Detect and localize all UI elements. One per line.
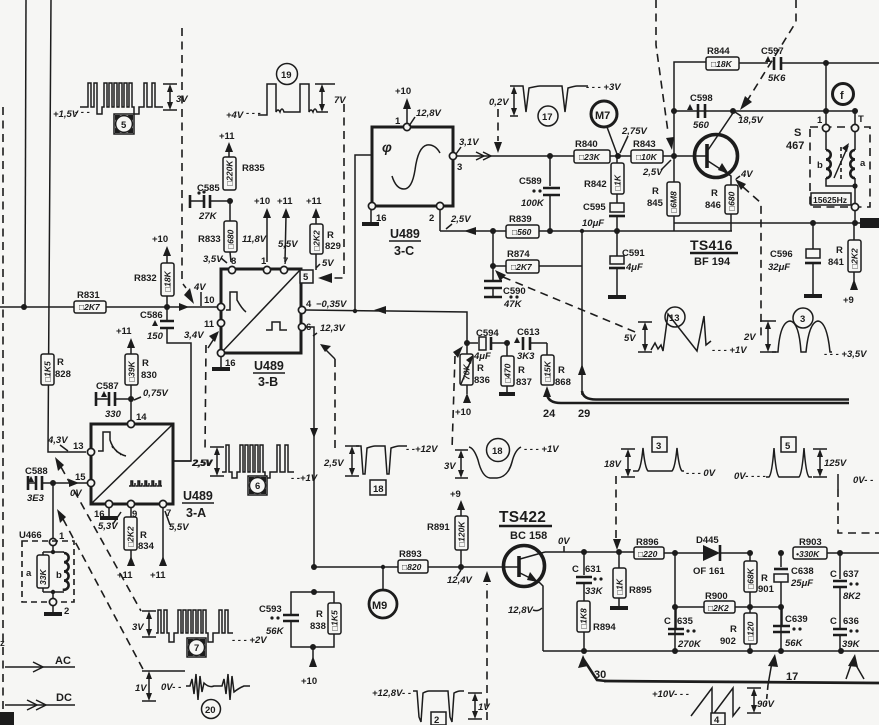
svg-text:□39K: □39K (127, 360, 137, 382)
svg-text:3-A: 3-A (186, 506, 206, 520)
svg-text:+9: +9 (843, 295, 854, 306)
pin 16 of 3-C + ground (368, 202, 375, 209)
waveform 19 pulse (226, 64, 346, 122)
svg-text:0,2V: 0,2V (489, 97, 509, 108)
svg-text:3-C: 3-C (394, 244, 414, 258)
svg-text:□2K2: □2K2 (126, 526, 136, 547)
wire vertical bus left (25, 0, 26, 307)
svg-text:R: R (836, 245, 843, 256)
wire dashed C590 node to waveform 13 (495, 270, 506, 281)
svg-text:C613: C613 (517, 327, 540, 338)
svg-text:29: 29 (578, 408, 590, 420)
svg-text:D445: D445 (696, 535, 719, 546)
svg-text:841: 841 (828, 257, 845, 268)
svg-text:4: 4 (306, 299, 312, 310)
resistor R842 (584, 156, 624, 194)
svg-text:C: C (572, 564, 579, 575)
svg-text:1V: 1V (135, 683, 147, 694)
svg-text:C585: C585 (197, 183, 220, 194)
svg-text:33K: 33K (38, 569, 48, 585)
svg-text:□1K: □1K (613, 174, 623, 191)
svg-text:56K: 56K (266, 626, 285, 637)
svg-text:+10: +10 (301, 676, 317, 687)
svg-text:□6M8: □6M8 (669, 191, 679, 213)
node 0,75V (128, 396, 134, 402)
measuring point f (833, 84, 854, 105)
svg-text:3: 3 (800, 314, 805, 325)
svg-text:TS416: TS416 (690, 237, 733, 253)
svg-text:2: 2 (429, 213, 434, 224)
svg-text:□18K: □18K (711, 59, 733, 69)
wire dashed top right to 18,5V node (747, 0, 796, 101)
resistor R844 (706, 46, 768, 70)
oscillator unit U466 dashed box (19, 483, 74, 602)
resistor R841 (828, 223, 861, 306)
svg-text:1: 1 (261, 256, 267, 267)
svg-text:836: 836 (474, 375, 490, 386)
svg-text:C587: C587 (96, 381, 119, 392)
wire 0V right edge (837, 474, 839, 489)
pin 4 (298, 306, 305, 313)
svg-text:f: f (840, 90, 844, 102)
wire collector top loop (674, 62, 706, 156)
svg-text:270K: 270K (677, 639, 702, 650)
wire dashed top to base node (656, 0, 668, 132)
capacitor C596 (768, 223, 822, 296)
svg-text:830: 830 (141, 370, 157, 381)
pin 10 (217, 303, 224, 310)
capacitor C588 (25, 466, 88, 504)
svg-text:C597: C597 (761, 46, 784, 57)
svg-text:100K: 100K (521, 198, 545, 209)
capacitor C587 (96, 381, 131, 420)
resistor R831 (74, 290, 106, 313)
svg-text:C: C (830, 569, 837, 580)
resistor R902 (720, 607, 757, 651)
svg-text:BF 194: BF 194 (694, 256, 731, 268)
svg-text:R: R (730, 624, 737, 635)
svg-text:- - - +1V: - - - +1V (712, 345, 747, 356)
svg-text:837: 837 (516, 377, 532, 388)
svg-text:C595: C595 (583, 202, 606, 213)
resistor R845 (647, 156, 680, 231)
svg-text:R: R (327, 230, 334, 241)
svg-text:R: R (652, 186, 659, 197)
svg-text:8: 8 (231, 256, 236, 267)
waveform boxed 5 spikes (734, 437, 847, 482)
svg-text:R840: R840 (575, 139, 598, 150)
svg-text:637: 637 (843, 569, 859, 580)
svg-text:15: 15 (75, 472, 86, 483)
waveform marker 18 box (370, 480, 386, 495)
wire dashed from waveform19 to pin5 of U489 3-B (330, 104, 344, 278)
svg-text:R842: R842 (584, 179, 607, 190)
capacitor C635 (664, 607, 702, 651)
wire 24 from R868 (543, 386, 551, 397)
svg-text:□1K: □1K (615, 578, 625, 595)
svg-text:R: R (57, 357, 64, 368)
svg-text:R: R (477, 363, 484, 374)
svg-text:M9: M9 (372, 600, 387, 612)
resistor R894 (577, 601, 616, 651)
resistor R830 (125, 354, 157, 420)
svg-text:+11: +11 (117, 570, 133, 581)
svg-text:30: 30 (594, 669, 606, 681)
transformer pin T (851, 124, 858, 131)
svg-text:□820: □820 (402, 562, 422, 572)
resistor a inside U466 (26, 552, 49, 592)
svg-text:0V- -: 0V- - (161, 682, 181, 693)
svg-text:R: R (316, 609, 323, 620)
resistor R891 (427, 489, 468, 567)
svg-text:10: 10 (204, 295, 215, 306)
svg-text:3,4V: 3,4V (184, 330, 204, 341)
capacitor C593 (259, 592, 314, 647)
resistor R843 (615, 139, 663, 163)
svg-text:2,5V: 2,5V (450, 214, 471, 225)
svg-text:2: 2 (434, 715, 439, 725)
supply +11 to R830 (116, 326, 135, 354)
svg-text:R: R (711, 188, 718, 199)
pin 9 (127, 500, 134, 507)
pin right 2,5V (173, 460, 191, 462)
svg-text:R895: R895 (629, 585, 652, 596)
waveform 13 sawtooth (624, 307, 747, 356)
svg-text:15625Hz: 15625Hz (813, 195, 847, 205)
svg-text:U489: U489 (183, 489, 213, 503)
svg-text:2,75V: 2,75V (621, 126, 647, 137)
svg-text:□2K7: □2K7 (79, 302, 101, 312)
svg-text:0V- - - -: 0V- - - - (734, 471, 766, 482)
waveform 2 pulses (372, 688, 490, 725)
svg-text:829: 829 (325, 241, 341, 252)
svg-text:2: 2 (64, 606, 69, 617)
svg-text:834: 834 (138, 541, 155, 552)
waveform 4 sawtooth (652, 688, 775, 725)
resistor R874 (490, 231, 582, 273)
svg-text:TS422: TS422 (499, 509, 546, 526)
svg-text:3V: 3V (444, 461, 456, 472)
svg-text:R832: R832 (134, 273, 157, 284)
svg-text:- -+12V: - -+12V (406, 444, 438, 455)
svg-text:R900: R900 (705, 591, 728, 602)
svg-text:27K: 27K (198, 211, 218, 222)
svg-text:□470: □470 (503, 363, 513, 383)
waveform 20 bursts (135, 671, 250, 719)
svg-text:□680: □680 (226, 229, 236, 249)
svg-text:T: T (858, 114, 864, 125)
svg-text:901: 901 (758, 584, 775, 595)
svg-text:C638: C638 (791, 566, 814, 577)
waveform marker 7 boxed circle (187, 638, 206, 657)
svg-text:R893: R893 (399, 549, 422, 560)
svg-text:□2K7: □2K7 (511, 262, 533, 272)
svg-text:4V: 4V (193, 282, 206, 293)
svg-text:□18K: □18K (163, 270, 173, 292)
svg-text:467: 467 (786, 140, 804, 152)
wire branch right V (848, 654, 858, 667)
svg-text:4V: 4V (740, 169, 753, 180)
svg-text:+11: +11 (219, 131, 235, 142)
svg-text:□560: □560 (512, 227, 532, 237)
capacitor C589 (519, 156, 560, 231)
svg-text:- - - +3,5V: - - - +3,5V (824, 349, 867, 360)
svg-text:12,4V: 12,4V (447, 575, 472, 586)
svg-text:13: 13 (669, 313, 680, 324)
svg-text:4μF: 4μF (625, 262, 643, 273)
resistor R838 (310, 592, 341, 647)
svg-text:32μF: 32μF (768, 262, 790, 273)
svg-text:12,8V: 12,8V (508, 605, 533, 616)
transformer coil a (850, 132, 866, 178)
transformer coil b (817, 132, 831, 178)
svg-text:C598: C598 (690, 93, 713, 104)
U466 pin 2 + ground (49, 598, 56, 605)
svg-text:a: a (860, 158, 866, 169)
svg-text:- - -: - - - (75, 107, 90, 118)
svg-text:828: 828 (55, 369, 71, 380)
capacitor C591 (608, 231, 645, 297)
svg-text:R843: R843 (633, 139, 656, 150)
pin 7 supply wire (150, 508, 167, 581)
svg-text:+10: +10 (455, 407, 471, 418)
svg-text:U466: U466 (19, 530, 42, 541)
waveform 5 pulse train (53, 83, 188, 120)
svg-text:3,1V: 3,1V (459, 137, 479, 148)
svg-text:1V: 1V (478, 702, 490, 713)
svg-text:330: 330 (105, 409, 122, 420)
svg-text:□23K: □23K (579, 152, 601, 162)
capacitor C585 (190, 183, 230, 222)
wire dashed pointer pin6 to waveform 18a (326, 350, 335, 359)
svg-text:17: 17 (786, 671, 798, 683)
transformer bottom wiring (826, 178, 855, 203)
wire R831 line (0, 306, 74, 308)
svg-text:5,5V: 5,5V (169, 522, 189, 533)
corner mark bottom left (0, 712, 14, 725)
waveform 7 comb (132, 610, 267, 646)
resistor R840 (547, 139, 610, 163)
capacitor C639 (773, 607, 808, 651)
svg-text:M7: M7 (595, 110, 610, 122)
pin 8 (228, 266, 235, 273)
svg-text:845: 845 (647, 198, 664, 209)
wire dashed margin left (2, 107, 4, 725)
pin 2 of 3-C (436, 202, 443, 209)
IC U489 3-A block (91, 424, 173, 504)
svg-text:+10: +10 (254, 196, 270, 207)
svg-text:4,3V: 4,3V (47, 435, 68, 446)
pin 11 (217, 319, 224, 326)
svg-text:R: R (558, 365, 565, 376)
svg-text:a: a (26, 568, 32, 579)
coil b inside U466 (56, 552, 69, 591)
svg-text:□120K: □120K (457, 521, 467, 547)
svg-text:+10: +10 (395, 86, 411, 97)
waveform marker 5 boxed circle (114, 114, 134, 134)
pin 14 (127, 420, 134, 427)
svg-text:2,5V: 2,5V (642, 167, 663, 178)
transformer S467 dashed box (786, 114, 870, 207)
svg-text:□2K2: □2K2 (850, 248, 860, 269)
svg-text:5,3V: 5,3V (98, 521, 118, 532)
svg-text:39K: 39K (842, 639, 861, 650)
svg-text:18,5V: 18,5V (738, 115, 763, 126)
svg-text:2,5V: 2,5V (323, 458, 344, 469)
pin 1 (263, 266, 270, 273)
svg-text:C596: C596 (770, 249, 793, 260)
svg-text:R874: R874 (507, 249, 530, 260)
svg-text:4μF: 4μF (473, 351, 491, 362)
pin 16 + ground (217, 349, 224, 356)
svg-text:+9: +9 (450, 489, 461, 500)
svg-text:18V: 18V (604, 459, 622, 470)
wire pin4 line to C594 node (306, 310, 467, 342)
supply +11 above R835 (219, 131, 235, 152)
bottom bus line (543, 650, 879, 652)
resistor R832 (134, 263, 174, 307)
pin 7 (159, 500, 166, 507)
resistor R846 (705, 185, 738, 231)
svg-text:631: 631 (585, 564, 602, 575)
pin 1 of 3-C (403, 123, 410, 130)
wire dashed pointer D1 to waveform 7 (55, 457, 64, 471)
svg-text:+11: +11 (116, 326, 132, 337)
svg-text:846: 846 (705, 200, 721, 211)
waveform 18b curve (444, 439, 559, 479)
capacitor C637 C636 chain (830, 553, 861, 651)
svg-text:56K: 56K (785, 638, 804, 649)
transistor TS416 (674, 113, 738, 185)
svg-text:5,5V: 5,5V (278, 239, 298, 250)
capacitor C597 (761, 46, 826, 84)
svg-text:4: 4 (714, 715, 720, 725)
diode D445 (693, 535, 750, 577)
svg-text:C588: C588 (25, 466, 48, 477)
wire dashed pointer D2 to waveform 20 (57, 509, 66, 523)
svg-text:C593: C593 (259, 604, 282, 615)
svg-text:868: 868 (555, 377, 571, 388)
svg-text:C589: C589 (519, 176, 542, 187)
svg-text:12,8V: 12,8V (416, 108, 441, 119)
svg-text:+4V: +4V (226, 110, 244, 121)
IC U489 3-B block (221, 269, 301, 353)
svg-text:R831: R831 (77, 290, 100, 301)
svg-text:DC: DC (56, 692, 72, 704)
wire 3,1V output line (457, 155, 674, 157)
svg-text:0V- -: 0V- - (853, 475, 873, 486)
wire dashed column to R832 area (181, 28, 183, 282)
resistor R828 (41, 354, 71, 385)
measuring point M9 (369, 565, 397, 618)
capacitor C594 (464, 328, 507, 362)
transformer core + adjust arrow (840, 147, 842, 180)
wire pin6 down to TS422 base line (306, 327, 314, 567)
svg-text:560: 560 (693, 120, 710, 131)
svg-text:24: 24 (543, 408, 556, 420)
svg-text:R: R (142, 358, 149, 369)
wire 29 vertical (581, 231, 583, 395)
svg-text:R894: R894 (593, 622, 616, 633)
svg-text:C590: C590 (503, 286, 526, 297)
svg-text:□120: □120 (746, 621, 756, 641)
svg-text:□220K: □220K (225, 160, 235, 186)
svg-text:□2K2: □2K2 (708, 603, 729, 613)
pin 16 + ground (105, 500, 112, 507)
svg-text:R903: R903 (799, 537, 822, 548)
measuring point M7 (591, 101, 617, 154)
svg-text:R: R (518, 365, 525, 376)
svg-text:+10V- - -: +10V- - - (652, 689, 689, 700)
resistor R868 (541, 343, 571, 388)
svg-text:□1K8: □1K8 (579, 608, 589, 629)
svg-text:R891: R891 (427, 522, 450, 533)
svg-text:13: 13 (73, 441, 84, 452)
svg-text:10μF: 10μF (582, 218, 604, 229)
capacitor C586 (140, 307, 191, 461)
svg-text:1: 1 (395, 116, 401, 127)
resistor R835 (223, 151, 265, 190)
svg-text:+11: +11 (306, 196, 322, 207)
svg-text:□680: □680 (727, 191, 737, 211)
wire dashed pointer waveform 2 to base (486, 584, 488, 720)
svg-text:90V: 90V (757, 699, 775, 710)
wire base line TS422 (314, 566, 398, 568)
resistor R829 (310, 224, 341, 270)
svg-text:b: b (56, 570, 62, 581)
svg-text:b: b (817, 160, 823, 171)
svg-text:3,5V: 3,5V (203, 254, 223, 265)
waveform boxed 3 spikes (604, 437, 716, 479)
svg-text:25μF: 25μF (790, 578, 813, 589)
svg-text:5: 5 (121, 120, 127, 131)
svg-text:□68K: □68K (746, 567, 756, 589)
svg-text:□10K: □10K (636, 152, 658, 162)
svg-text:- -+1V: - -+1V (291, 473, 318, 484)
svg-text:3-B: 3-B (258, 375, 278, 389)
svg-text:12,3V: 12,3V (320, 323, 345, 334)
svg-text:BC 158: BC 158 (510, 530, 547, 542)
svg-text:20: 20 (205, 705, 216, 716)
svg-text:−0,35V: −0,35V (316, 299, 347, 310)
svg-text:902: 902 (720, 636, 736, 647)
waveform marker 6 boxed circle (248, 476, 267, 495)
transformer bottom pin (851, 203, 858, 210)
resistor R895 (610, 552, 652, 608)
wire feedback from 3-C left side to pin4 line (355, 155, 372, 310)
transistor TS422 (504, 546, 546, 652)
resistor R834 (117, 508, 155, 581)
svg-text:3V: 3V (132, 622, 144, 633)
capacitor C613 (504, 327, 547, 362)
capacitor C595 electrolytic (582, 194, 625, 231)
capacitor C638 (774, 550, 814, 607)
capacitor C590 (484, 266, 526, 310)
svg-text:0V: 0V (558, 536, 570, 547)
svg-text:S: S (794, 127, 801, 139)
svg-text:U489: U489 (254, 359, 284, 373)
capacitor C598 (687, 93, 713, 131)
svg-text:C586: C586 (140, 310, 163, 321)
supply +10 to R832 (152, 234, 171, 263)
svg-text:R: R (761, 573, 768, 584)
resistor R903 (793, 537, 879, 559)
resistor R896 (634, 537, 703, 559)
svg-text:□1K5: □1K5 (330, 610, 340, 631)
svg-text:6: 6 (255, 481, 260, 492)
svg-text:C: C (830, 616, 837, 627)
svg-text:1: 1 (817, 115, 823, 126)
